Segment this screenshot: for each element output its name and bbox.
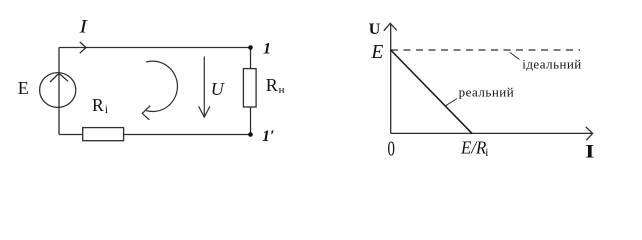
svg-text:I: I bbox=[78, 17, 89, 38]
svg-text:ідеальний: ідеальний bbox=[522, 57, 581, 72]
svg-text:реальний: реальний bbox=[459, 85, 515, 100]
svg-text:R: R bbox=[92, 95, 104, 115]
svg-text:н: н bbox=[279, 84, 285, 96]
svg-text:R: R bbox=[266, 75, 278, 95]
svg-text:1′: 1′ bbox=[262, 128, 275, 145]
svg-text:0: 0 bbox=[388, 137, 395, 161]
svg-text:i: i bbox=[485, 147, 488, 159]
svg-text:E/R: E/R bbox=[460, 138, 486, 158]
svg-text:1: 1 bbox=[263, 40, 271, 57]
svg-text:U: U bbox=[369, 21, 381, 38]
svg-text:U: U bbox=[211, 79, 225, 99]
svg-text:E: E bbox=[370, 42, 383, 63]
svg-text:i: i bbox=[105, 102, 109, 116]
svg-text:I: I bbox=[585, 141, 594, 162]
svg-text:E: E bbox=[18, 78, 29, 98]
